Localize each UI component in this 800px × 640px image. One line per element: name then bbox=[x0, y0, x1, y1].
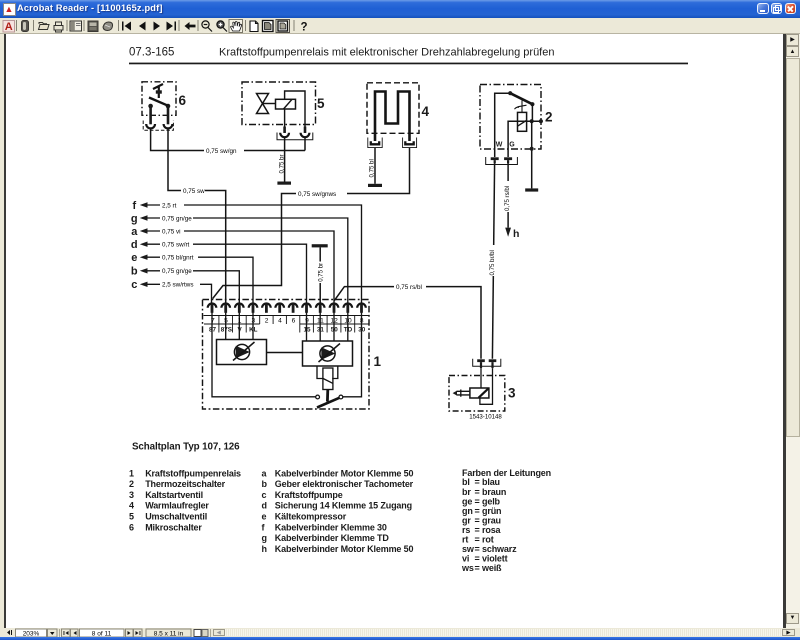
svg-text:3: 3 bbox=[129, 490, 134, 500]
svg-text:=: = bbox=[475, 506, 480, 516]
svg-text:15: 15 bbox=[303, 326, 311, 333]
relay K1 switch blade bbox=[317, 397, 341, 407]
svg-text:Kraftstoffpumpenrelais mit ele: Kraftstoffpumpenrelais mit elektronische… bbox=[219, 47, 554, 59]
svg-text:2: 2 bbox=[265, 317, 269, 324]
thermo time switch S2 G conductor bbox=[508, 121, 541, 157]
thermo time switch S2 ground stem bbox=[531, 121, 533, 188]
relay K1 internal wire pin 9 bbox=[306, 312, 308, 341]
svg-text:0,75 br: 0,75 br bbox=[278, 155, 285, 174]
svg-text:30: 30 bbox=[358, 326, 366, 333]
cold start valve Y3 nozzle bbox=[457, 390, 470, 397]
svg-text:rt: rt bbox=[462, 535, 468, 545]
svg-text:5: 5 bbox=[129, 512, 134, 522]
relay K1 terminal pin 12 bbox=[330, 303, 339, 313]
svg-text:gn: gn bbox=[462, 506, 473, 516]
svg-text:0,75 sw: 0,75 sw bbox=[183, 188, 205, 195]
wire 0,75 rs/bl from S2 G to connector h bbox=[507, 163, 509, 227]
changeover valve Y5 stem bbox=[263, 103, 276, 105]
thermo time switch S2 box bbox=[480, 85, 541, 150]
wire 0,75 sw from S6 to pin 5 bbox=[168, 128, 226, 303]
svg-text:Sicherung 14 Klemme 15 Zugang: Sicherung 14 Klemme 15 Zugang bbox=[275, 501, 412, 511]
svg-text:Kabelverbinder Klemme 30: Kabelverbinder Klemme 30 bbox=[275, 522, 387, 532]
cold start valve Y3 pins into box bbox=[480, 368, 482, 388]
svg-text:0,75 sw/rt: 0,75 sw/rt bbox=[162, 242, 190, 249]
svg-text:=: = bbox=[475, 496, 480, 506]
relay K1 switch contact left bbox=[316, 395, 320, 399]
changeover valve Y5 box bbox=[242, 82, 316, 125]
svg-text:2: 2 bbox=[129, 479, 134, 489]
relay K1 terminal strip line bbox=[204, 315, 369, 317]
microswitch S6 contacts bbox=[148, 104, 170, 109]
svg-text:bl: bl bbox=[462, 477, 470, 487]
ground at Y5 bbox=[277, 182, 291, 185]
relay K1 internal wire pin 7 to switch bbox=[212, 312, 316, 397]
changeover valve Y5 socket left bbox=[280, 133, 289, 137]
svg-text:6: 6 bbox=[292, 317, 296, 324]
relay K1 resistor bbox=[323, 368, 333, 390]
microswitch S6 pin left bbox=[149, 106, 152, 124]
svg-text:=: = bbox=[475, 535, 480, 545]
relay K1 pin number dividers bbox=[219, 316, 355, 325]
microswitch S6 socket right bbox=[164, 124, 173, 128]
changeover valve Y5 connector bracket bbox=[277, 133, 313, 140]
thermo time switch S2 bimetal actuator bbox=[515, 101, 527, 113]
svg-text:12: 12 bbox=[331, 317, 339, 324]
relay K1 internal wire pin 12 bbox=[333, 312, 335, 341]
svg-text:1: 1 bbox=[129, 468, 134, 478]
svg-text:5: 5 bbox=[224, 317, 228, 324]
svg-text:TD: TD bbox=[344, 326, 353, 333]
svg-text:g: g bbox=[262, 533, 267, 543]
microswitch S6 actuator bbox=[153, 84, 163, 98]
svg-text:6: 6 bbox=[179, 93, 187, 108]
svg-text:8: 8 bbox=[360, 317, 364, 324]
svg-text:1: 1 bbox=[238, 317, 242, 324]
svg-text:31: 31 bbox=[317, 326, 325, 333]
svg-text:Kraftstoffpumpe: Kraftstoffpumpe bbox=[275, 490, 343, 500]
relay K1 terminal pin 1 bbox=[235, 303, 244, 313]
svg-text:sw: sw bbox=[462, 544, 475, 554]
svg-text:vi: vi bbox=[462, 554, 469, 564]
svg-text:0,75 bl: 0,75 bl bbox=[368, 159, 375, 177]
svg-text:3: 3 bbox=[251, 317, 255, 324]
ground above pin 31 bbox=[312, 244, 328, 247]
relay K1 terminal pin 10 bbox=[344, 303, 353, 313]
relay K1 terminal designations bbox=[209, 326, 366, 333]
thermo time switch S2 terminal pads bbox=[491, 157, 512, 163]
svg-text:9: 9 bbox=[305, 317, 309, 324]
svg-text:grau: grau bbox=[482, 515, 501, 525]
svg-text:0,75 sw/gnws: 0,75 sw/gnws bbox=[298, 191, 336, 198]
svg-text:=: = bbox=[475, 515, 480, 525]
connector h arrow bbox=[505, 228, 511, 237]
svg-text:Kabelverbinder Motor Klemme 50: Kabelverbinder Motor Klemme 50 bbox=[275, 544, 414, 554]
relay K1 coil symbol A bbox=[234, 344, 249, 359]
svg-text:Kaltstartventil: Kaltstartventil bbox=[145, 490, 203, 500]
svg-text:0,75 vi: 0,75 vi bbox=[162, 228, 181, 235]
relay K1 terminal pin 5 bbox=[221, 303, 230, 313]
microswitch S6 arm bbox=[149, 98, 168, 106]
wire Y5 left to ground bbox=[284, 137, 286, 181]
header rule bbox=[129, 63, 688, 65]
svg-text:0,75 bl/gnrt: 0,75 bl/gnrt bbox=[162, 255, 194, 262]
wire R4 left to ground bbox=[374, 148, 376, 184]
svg-text:=: = bbox=[475, 487, 480, 497]
relay K1 pin label dividers bbox=[204, 324, 369, 333]
svg-text:87S: 87S bbox=[221, 326, 232, 333]
wire f 2,5 rt to pin 8 bbox=[145, 205, 362, 303]
svg-text:0,75 gn/ge: 0,75 gn/ge bbox=[162, 268, 192, 275]
warm-up regulator R4 box bbox=[367, 83, 419, 134]
cold start valve Y3 return loop bbox=[480, 368, 493, 404]
relay K1 internal wire pin 1 bbox=[238, 312, 240, 340]
thermo time switch S2 W conductor bbox=[495, 93, 511, 157]
changeover valve Y5 socket right bbox=[301, 133, 310, 137]
wire 0,75 br/bl from S2 W to valve Y3 bbox=[492, 163, 494, 358]
fuel pump relay K1 box bbox=[203, 300, 370, 410]
svg-text:rot: rot bbox=[482, 535, 494, 545]
svg-text:11: 11 bbox=[317, 317, 324, 324]
ground at R4 bbox=[368, 184, 382, 187]
relay K1 terminal pin 6 bbox=[289, 303, 298, 313]
svg-text:4: 4 bbox=[129, 501, 134, 511]
svg-text:a: a bbox=[262, 468, 268, 478]
svg-text:2: 2 bbox=[545, 110, 553, 125]
svg-text:blau: blau bbox=[482, 477, 500, 487]
relay K1 terminal pin 9 bbox=[302, 303, 311, 313]
warm-up regulator R4 socket right bbox=[405, 141, 413, 144]
microswitch S6 pin right bbox=[167, 106, 170, 124]
svg-text:Warmlaufregler: Warmlaufregler bbox=[145, 501, 209, 511]
svg-text:Schaltplan Typ 107, 126: Schaltplan Typ 107, 126 bbox=[132, 442, 240, 453]
relay K1 terminal pin 2 bbox=[262, 303, 271, 313]
svg-text:weiß: weiß bbox=[481, 563, 502, 573]
relay K1 resistor bracket bbox=[317, 366, 338, 379]
relay K1 pin numbers bbox=[211, 317, 364, 324]
svg-text:87: 87 bbox=[209, 326, 217, 333]
changeover valve Y5 pins bbox=[283, 127, 286, 134]
relay K1 internal wire pin 10 bbox=[347, 312, 349, 341]
ground at S2 bbox=[525, 188, 538, 191]
svg-text:4: 4 bbox=[278, 317, 282, 324]
svg-text:ws: ws bbox=[461, 563, 474, 573]
svg-text:0,75 gn/ge: 0,75 gn/ge bbox=[162, 215, 192, 222]
svg-text:Kabelverbinder Klemme TD: Kabelverbinder Klemme TD bbox=[275, 533, 390, 543]
wire 0,75 sw/gn from S6 to Y5 bbox=[151, 128, 305, 150]
relay K1 internal wire pin 11 bbox=[319, 312, 321, 341]
svg-text:1: 1 bbox=[374, 354, 382, 369]
relay K1 terminal pin 11 bbox=[316, 303, 325, 313]
svg-text:rs: rs bbox=[462, 525, 470, 535]
svg-text:Kältekompressor: Kältekompressor bbox=[275, 512, 347, 522]
relay K1 internal wire pin 5 bbox=[225, 312, 227, 340]
svg-text:50: 50 bbox=[331, 326, 339, 333]
svg-text:?: ? bbox=[300, 22, 307, 34]
svg-text:h: h bbox=[513, 228, 519, 240]
relay K1 internal wire pin 8 to switch bbox=[343, 312, 362, 397]
svg-text:3: 3 bbox=[508, 386, 516, 401]
svg-text:0,75 sw/gn: 0,75 sw/gn bbox=[206, 148, 237, 155]
svg-text:W: W bbox=[496, 142, 503, 149]
wire 0,75 sw/gnws from R4 to pin 7 bbox=[213, 148, 410, 299]
svg-text:Kabelverbinder Motor Klemme 50: Kabelverbinder Motor Klemme 50 bbox=[275, 468, 414, 478]
svg-text:Geber elektronischer Tachomete: Geber elektronischer Tachometer bbox=[275, 479, 414, 489]
wire b 0,75 gn/ge to pin 1 bbox=[145, 271, 239, 303]
relay K1 coil box B bbox=[303, 341, 353, 366]
relay K1 terminal pin 8 bbox=[357, 303, 366, 313]
svg-text:g: g bbox=[131, 213, 138, 225]
changeover valve Y5 solenoid bbox=[276, 99, 296, 109]
svg-text:gelb: gelb bbox=[482, 496, 501, 506]
svg-text:Umschaltventil: Umschaltventil bbox=[145, 512, 207, 522]
svg-text:V: V bbox=[237, 326, 242, 333]
relay K1 internal wire pin 3 bbox=[252, 312, 254, 340]
svg-text:KL: KL bbox=[249, 326, 258, 333]
svg-text:a: a bbox=[131, 226, 138, 238]
svg-text:2,5 sw/rtws: 2,5 sw/rtws bbox=[162, 282, 194, 289]
changeover valve Y5 internal wiring bbox=[285, 91, 305, 127]
svg-text:f: f bbox=[262, 522, 266, 532]
svg-text:0,75 rs/bl: 0,75 rs/bl bbox=[504, 186, 511, 211]
svg-text:4: 4 bbox=[422, 104, 430, 119]
svg-text:f: f bbox=[132, 200, 136, 212]
warm-up regulator R4 connector brackets bbox=[368, 138, 417, 148]
warm-up regulator R4 heating element bbox=[375, 92, 410, 142]
svg-text:d: d bbox=[131, 239, 138, 251]
svg-text:0,75 rs/bl: 0,75 rs/bl bbox=[396, 284, 422, 291]
relay K1 coil symbol B bbox=[320, 346, 335, 361]
cold start valve Y3 valve body bbox=[470, 388, 489, 398]
wire a 0,75 vi to pin 12 bbox=[145, 231, 334, 303]
relay K1 switch contact right bbox=[339, 395, 343, 399]
relay K1 terminal pin 3 bbox=[249, 303, 258, 313]
svg-text:violett: violett bbox=[482, 554, 508, 564]
svg-text:Mikroschalter: Mikroschalter bbox=[145, 522, 202, 532]
thermo time switch S2 heater bbox=[518, 112, 527, 131]
svg-text:=: = bbox=[475, 554, 480, 564]
relay K1 terminal pin 7 bbox=[208, 303, 217, 313]
svg-text:Kraftstoffpumpenrelais: Kraftstoffpumpenrelais bbox=[145, 468, 241, 478]
svg-text:h: h bbox=[262, 544, 267, 554]
svg-text:grün: grün bbox=[482, 506, 501, 516]
svg-text:G: G bbox=[509, 142, 515, 149]
svg-text:=: = bbox=[475, 525, 480, 535]
svg-text:2,5 rt: 2,5 rt bbox=[162, 202, 177, 209]
cold start valve Y3 connector bracket bbox=[473, 359, 501, 367]
thermo time switch S2 connector bracket bbox=[486, 157, 518, 165]
wire g 0,75 gn/ge to pin 10 bbox=[145, 218, 348, 303]
svg-text:schwarz: schwarz bbox=[482, 544, 517, 554]
svg-text:braun: braun bbox=[482, 487, 506, 497]
svg-text:7: 7 bbox=[211, 317, 215, 324]
microswitch S6 connector bracket bbox=[143, 121, 173, 131]
svg-text:07.3-165: 07.3-165 bbox=[129, 47, 174, 59]
svg-text:0,75 br: 0,75 br bbox=[317, 263, 324, 282]
wire c 2,5 sw/rtws to pin 7 bbox=[145, 284, 212, 303]
relay K1 switch pushrod bbox=[326, 390, 329, 402]
wire 0,75 rs/bl from pin 12 to valve Y3 bbox=[334, 287, 481, 359]
svg-text:c: c bbox=[131, 279, 137, 291]
svg-text:0,75 br/bl: 0,75 br/bl bbox=[489, 250, 496, 275]
svg-text:b: b bbox=[131, 266, 138, 278]
wire e 0,75 bl/gnrt to pin 3 bbox=[145, 257, 253, 303]
svg-text:=: = bbox=[475, 563, 480, 573]
svg-text:Thermozeitschalter: Thermozeitschalter bbox=[145, 479, 225, 489]
thermo time switch S2 arm link bbox=[531, 104, 533, 121]
microswitch S6 box bbox=[142, 82, 176, 116]
svg-text:gr: gr bbox=[462, 515, 471, 525]
svg-text:A: A bbox=[5, 21, 13, 33]
svg-text:6: 6 bbox=[129, 522, 134, 532]
relay K1 terminal pin 4 bbox=[275, 303, 284, 313]
relay K1 coil box A bbox=[217, 340, 267, 365]
svg-text:5: 5 bbox=[317, 96, 325, 111]
microswitch S6 socket left bbox=[146, 124, 155, 128]
svg-text:rosa: rosa bbox=[482, 525, 502, 535]
svg-text:d: d bbox=[262, 501, 267, 511]
svg-text:=: = bbox=[475, 544, 480, 554]
svg-text:e: e bbox=[131, 252, 137, 264]
changeover valve Y5 butterfly bbox=[257, 94, 269, 114]
warm-up regulator R4 socket left bbox=[371, 141, 379, 144]
svg-text:=: = bbox=[475, 477, 480, 487]
svg-text:c: c bbox=[262, 490, 267, 500]
svg-text:1543-10148: 1543-10148 bbox=[469, 414, 502, 421]
svg-text:ge: ge bbox=[462, 496, 472, 506]
svg-text:10: 10 bbox=[344, 317, 352, 324]
svg-text:e: e bbox=[262, 512, 267, 522]
thermo time switch S2 contact arm bbox=[510, 93, 532, 104]
svg-text:br: br bbox=[462, 487, 471, 497]
cold start valve Y3 box bbox=[449, 376, 505, 412]
cold start valve Y3 terminal pads bbox=[477, 359, 496, 368]
wire d 0,75 sw/rt to pin 9 bbox=[145, 244, 307, 303]
wire between coil boxes bbox=[267, 352, 303, 354]
svg-text:b: b bbox=[262, 479, 268, 489]
